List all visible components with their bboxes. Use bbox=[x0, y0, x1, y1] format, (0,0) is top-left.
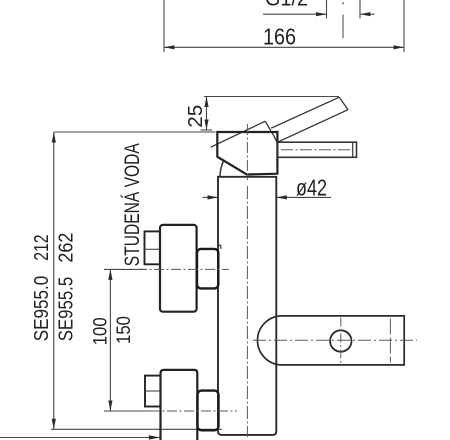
top eccentric body bbox=[160, 225, 197, 312]
cap centerline bbox=[246, 124, 248, 180]
centerline pipe stub top bbox=[342, 2, 344, 5]
extension 100 bottom bbox=[104, 410, 152, 412]
dimension G1/2 arrow left bbox=[316, 12, 327, 16]
dimension G1/2 arrow right bbox=[360, 12, 371, 16]
extension line 166 right bbox=[403, 0, 405, 52]
extension line 212 top bbox=[54, 131, 216, 133]
arrow 100 up bbox=[108, 269, 112, 280]
body top edge bbox=[218, 176, 276, 178]
top hex nut bbox=[197, 249, 218, 289]
dome arc left bbox=[220, 161, 224, 177]
bracket hole circle bbox=[330, 330, 351, 351]
dimension line 212/262 bbox=[53, 132, 55, 429]
lever top edge bbox=[271, 97, 339, 128]
arrow 25 down bbox=[204, 120, 208, 131]
extension 100 top bbox=[104, 268, 146, 270]
wall bracket outline bbox=[258, 316, 405, 365]
svg-text:166: 166 bbox=[263, 24, 296, 50]
svg-text:212: 212 bbox=[30, 234, 53, 260]
top connector centerline bbox=[137, 268, 229, 270]
extension line 25 top bbox=[204, 96, 339, 98]
bottom thread stub mid line bbox=[145, 390, 161, 392]
arrow 212 down bbox=[52, 419, 56, 430]
dimension o42 left bbox=[203, 196, 219, 198]
body centerline bbox=[246, 186, 248, 437]
dimension o42 right bbox=[276, 196, 331, 198]
dimension G1/2 tail right bbox=[360, 13, 375, 15]
bottom connector thread stub bbox=[145, 376, 161, 407]
tick 25 bottom bbox=[201, 129, 213, 131]
top thread stub mid line bbox=[145, 248, 161, 250]
arrow 100 down bbox=[108, 401, 112, 412]
bottom eccentric body bbox=[161, 370, 198, 440]
svg-text:G1/2: G1/2 bbox=[265, 0, 308, 11]
extension line G1/2 right bbox=[359, 0, 361, 19]
lever neck line bbox=[272, 132, 278, 143]
bracket horizontal centerline bbox=[253, 339, 417, 341]
bracket vertical centerline at hole bbox=[340, 318, 342, 364]
arrow o42 right bbox=[276, 195, 287, 199]
bottom hex nut bbox=[198, 391, 219, 431]
bottom cut dimension line bbox=[0, 437, 160, 439]
bottom cut arrow bbox=[149, 435, 161, 439]
grip bar outline bbox=[277, 142, 356, 157]
arrow 166 left bbox=[164, 45, 175, 49]
lever bottom edge bbox=[277, 110, 348, 143]
svg-text:STUDENÁ VODA: STUDENÁ VODA bbox=[121, 143, 144, 266]
grip bar centerline bbox=[281, 149, 351, 151]
extension line 212 bottom bbox=[51, 428, 222, 430]
top nut seat tick bbox=[217, 244, 221, 246]
svg-text:262: 262 bbox=[55, 233, 78, 263]
dimension line 100/150 bbox=[109, 269, 111, 411]
bracket vertical dash right bbox=[389, 319, 391, 363]
extension line 166 left bbox=[163, 0, 165, 52]
lever right end cap bbox=[339, 97, 348, 110]
bottom connector centerline bbox=[150, 410, 237, 412]
dimension G1/2 leader line left bbox=[263, 13, 327, 15]
dimension line 166 bbox=[164, 46, 404, 48]
svg-text:100: 100 bbox=[91, 317, 112, 345]
arrow 212 up bbox=[52, 132, 56, 143]
arrow o42 left bbox=[208, 195, 219, 199]
svg-text:150: 150 bbox=[114, 316, 135, 344]
extension line G1/2 left bbox=[326, 0, 328, 19]
dimension line 25 bbox=[206, 97, 208, 131]
lever left end cap bbox=[265, 121, 271, 131]
arrow 166 right bbox=[394, 45, 405, 49]
lever lower-left line bbox=[211, 121, 266, 147]
svg-text:SE955.5: SE955.5 bbox=[55, 277, 78, 342]
arrow 25 up bbox=[204, 97, 208, 108]
svg-text:ø42: ø42 bbox=[296, 175, 327, 201]
handle cap pentagon bbox=[217, 132, 277, 175]
grip bar end line bbox=[352, 142, 354, 157]
top connector thread stub bbox=[145, 231, 161, 264]
main body tube bbox=[218, 177, 276, 435]
svg-text:SE955.0: SE955.0 bbox=[30, 276, 53, 342]
svg-text:25: 25 bbox=[185, 105, 207, 128]
